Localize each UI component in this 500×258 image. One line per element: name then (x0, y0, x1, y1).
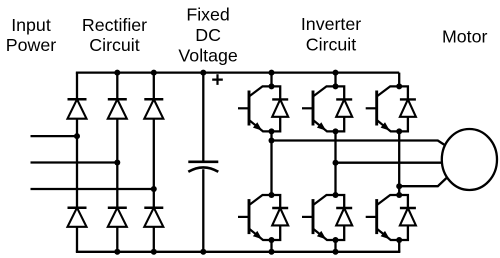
wire input phase L3 (31, 188, 154, 190)
label + polarity (212, 74, 223, 85)
motor M (442, 129, 497, 190)
node capacitor top rail (200, 70, 206, 76)
node cell bottom leg 1 upper (269, 128, 275, 134)
node input L3 junction (151, 186, 157, 192)
wire inverter leg 3 from top rail (398, 73, 400, 87)
svg-text:Voltage: Voltage (178, 45, 237, 65)
diode D12 (399, 195, 416, 240)
svg-text:Motor: Motor (442, 26, 488, 46)
node bottom rail leg 3 (151, 249, 157, 255)
transistor Q3 (302, 86, 336, 131)
node top rail inverter leg 2 (333, 70, 339, 76)
node cell bottom leg 2 lower (333, 237, 339, 243)
wire inverter leg 3 midlink (398, 131, 400, 195)
node cell bottom leg 3 lower (396, 237, 402, 243)
wire phase U to motor (272, 141, 448, 147)
transistor Q6 (366, 195, 400, 240)
node phase W tap (396, 183, 402, 189)
node phase U tap (269, 138, 275, 144)
node cell top leg 2 upper (333, 83, 339, 89)
node phase V tap (333, 160, 339, 166)
transistor Q4 (302, 195, 336, 240)
wire inverter leg 3 to bottom rail (398, 240, 400, 252)
capacitor C1 (188, 162, 218, 172)
wire rectifier leg 2 upper (116, 73, 118, 100)
node cell top leg 3 lower (396, 192, 402, 198)
wire inverter leg 2 to bottom rail (334, 240, 336, 252)
transistor Q2 (238, 195, 272, 240)
wire phase V to motor (336, 162, 444, 164)
diode D1 (68, 99, 87, 118)
svg-text:Fixed: Fixed (186, 5, 229, 25)
node bottom rail inverter leg 2 (333, 249, 339, 255)
node bottom rail inverter leg 1 (269, 249, 275, 255)
svg-text:DC: DC (195, 25, 221, 45)
transistor Q5 (366, 86, 400, 131)
wire input phase L2 (31, 161, 118, 163)
wire inverter leg 2 from top rail (334, 73, 336, 87)
node cell top leg 3 upper (396, 83, 402, 89)
wire rectifier leg 3 lower (153, 227, 155, 252)
node input L2 junction (114, 160, 120, 166)
wire inverter leg 1 to bottom rail (270, 240, 272, 252)
diode D9 (336, 86, 353, 131)
wire rectifier leg 1 upper (76, 73, 78, 100)
node cell bottom leg 3 upper (396, 128, 402, 134)
node cell top leg 2 lower (333, 192, 339, 198)
diode D2 (108, 99, 127, 118)
wire DC- bottom rail (76, 251, 401, 253)
node cell top leg 1 upper (269, 83, 275, 89)
wire inverter leg 1 midlink (270, 131, 272, 195)
diode D10 (336, 195, 353, 240)
diode D4 (68, 208, 87, 227)
svg-text:Circuit: Circuit (89, 35, 139, 55)
node capacitor bottom rail (200, 249, 206, 255)
svg-text:Power: Power (6, 35, 56, 55)
wire rectifier leg 2 lower (116, 227, 118, 252)
wire inverter leg 2 midlink (334, 131, 336, 195)
diode D7 (272, 86, 289, 131)
transistor Q1 (238, 86, 272, 131)
wire input phase L1 (31, 135, 78, 137)
wire rectifier leg 3 upper (153, 73, 155, 100)
wire DC+ top rail (76, 71, 399, 73)
wire capacitor top lead (202, 73, 204, 162)
svg-text:Inverter: Inverter (301, 14, 361, 34)
svg-text:Circuit: Circuit (306, 34, 356, 54)
node cell bottom leg 1 lower (269, 237, 275, 243)
wire rectifier leg 3 middle (153, 119, 155, 208)
node input L1 junction (74, 133, 80, 139)
wire capacitor bottom lead (202, 169, 204, 252)
wire inverter leg 1 from top rail (270, 73, 272, 87)
svg-text:Rectifier: Rectifier (82, 15, 147, 35)
node bottom rail leg 2 (114, 249, 120, 255)
diode D5 (108, 208, 127, 227)
wire rectifier leg 1 middle (76, 119, 78, 208)
node top rail leg 2 (114, 70, 120, 76)
wire rectifier leg 1 lower (76, 227, 78, 252)
node top rail leg 3 (151, 70, 157, 76)
wire phase W to motor (399, 178, 447, 187)
node top rail inverter leg 1 (269, 70, 275, 76)
diode D6 (144, 208, 163, 227)
node cell bottom leg 2 upper (333, 128, 339, 134)
diode D8 (272, 195, 289, 240)
svg-text:Input: Input (11, 15, 51, 35)
diode D3 (144, 99, 163, 118)
node cell top leg 1 lower (269, 192, 275, 198)
wire rectifier leg 2 middle (116, 119, 118, 208)
diode D11 (399, 86, 416, 131)
